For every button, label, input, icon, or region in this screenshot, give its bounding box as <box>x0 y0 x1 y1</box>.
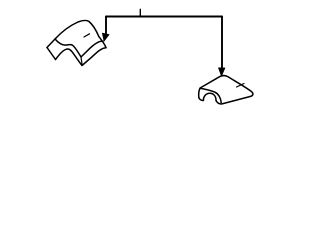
bushing left: top surface dash <box>84 34 90 37</box>
bushing left: front-bottom wavy edge <box>56 48 107 66</box>
arrowhead right <box>218 68 225 77</box>
bushing left: groove connector <box>81 57 82 64</box>
bushing left: front-top wavy edge <box>55 39 103 57</box>
wire: horizontal leader line <box>106 16 222 18</box>
bushing left: back-top silhouette <box>47 20 99 47</box>
wire: left leader drop <box>105 17 107 34</box>
bushing right: notch arch <box>203 93 216 101</box>
bushing right: outline silhouette <box>199 76 253 104</box>
arrowhead left <box>102 33 109 41</box>
bushing left: left end front edge <box>47 48 56 60</box>
wire: right leader drop <box>221 17 223 69</box>
bushing right: top surface dash <box>237 84 245 88</box>
bushing right: bottom-left edge <box>199 98 204 101</box>
wire: center tick <box>139 9 141 16</box>
bushing right: front-top inner edge <box>200 88 221 102</box>
bushing left: right end edge <box>99 37 106 48</box>
